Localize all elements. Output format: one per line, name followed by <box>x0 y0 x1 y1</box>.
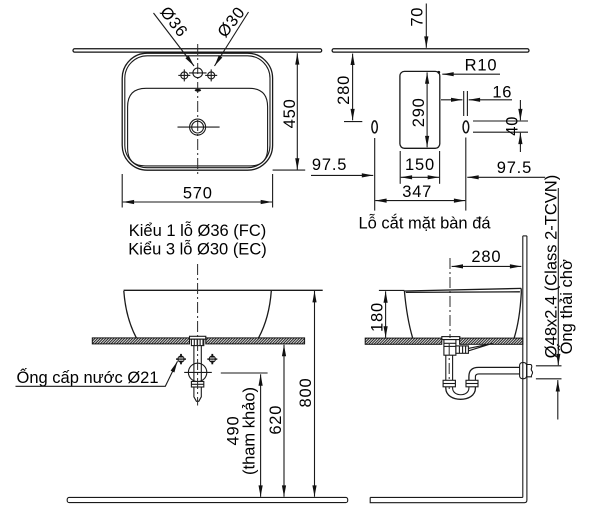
svg-text:450: 450 <box>281 98 299 128</box>
dimension 280 (side) <box>452 248 522 266</box>
dimension 347 <box>375 138 466 211</box>
svg-text:Lỗ cắt mặt bàn đá: Lỗ cắt mặt bàn đá <box>358 214 491 233</box>
waiting drain arrow <box>557 380 559 419</box>
floor slab right <box>370 497 527 502</box>
bowl right side (front) <box>259 291 272 338</box>
overflow slot <box>195 89 201 92</box>
side outlet fitting <box>456 346 469 353</box>
dimension 290 <box>410 72 428 147</box>
dimension 450 <box>273 53 306 170</box>
basin left side (side) <box>404 291 412 338</box>
dimension 800 <box>297 291 315 497</box>
wall <box>523 236 527 500</box>
svg-text:Kiểu 3 lỗ Ø30 (EC): Kiểu 3 lỗ Ø30 (EC) <box>128 239 266 258</box>
basin opening rect <box>128 88 268 166</box>
zero marker right <box>463 121 469 133</box>
dimension 97.5 right <box>467 159 545 177</box>
svg-text:40: 40 <box>504 116 522 136</box>
trap ball (front) <box>188 363 206 381</box>
svg-text:290: 290 <box>410 97 428 127</box>
trap centerline (side) <box>448 344 450 389</box>
dimension 180 <box>369 290 405 337</box>
dimension 150 <box>400 151 439 184</box>
svg-text:97.5: 97.5 <box>497 159 532 177</box>
svg-text:280: 280 <box>471 248 501 266</box>
svg-text:97.5: 97.5 <box>312 156 347 174</box>
dimension 620 <box>267 345 285 497</box>
ball centerline <box>184 371 212 373</box>
countertop edge line (cut-hole view) <box>332 49 529 52</box>
svg-text:(tham khảo): (tham khảo) <box>240 387 258 475</box>
center line (front vertical) <box>197 264 199 406</box>
U-bend outer <box>446 387 476 400</box>
supply point right <box>207 354 217 364</box>
lower nut (front) <box>191 382 203 388</box>
tailpipe (side) <box>446 355 453 380</box>
dimension 280 <box>335 54 362 122</box>
countertop band (side) <box>365 338 523 344</box>
svg-text:Ống cấp nước Ø21: Ống cấp nước Ø21 <box>17 367 159 387</box>
basin right side (side) <box>514 293 521 338</box>
faucet hole right Ø30 <box>205 69 217 81</box>
riser and elbow outer <box>469 367 520 380</box>
zero marker left <box>372 121 377 133</box>
svg-text:800: 800 <box>297 378 315 408</box>
drain flange (front) <box>190 336 206 339</box>
waiting drain stub <box>527 365 533 377</box>
dimension 40 <box>473 100 528 152</box>
svg-text:Kiểu 1 lỗ Ø36 (FC): Kiểu 1 lỗ Ø36 (FC) <box>129 221 267 240</box>
svg-text:620: 620 <box>267 405 285 435</box>
svg-text:570: 570 <box>183 185 213 203</box>
tailpipe (front) <box>194 346 201 382</box>
svg-text:150: 150 <box>405 156 435 174</box>
supply point left <box>176 354 186 364</box>
faucet hole center Ø36 <box>189 68 207 78</box>
supply level extension line <box>221 372 268 374</box>
countertop edge line (plan view) <box>73 49 322 52</box>
dimension 570 <box>122 174 272 208</box>
cut-out rectangle R10 <box>400 71 440 148</box>
svg-text:16: 16 <box>492 83 512 101</box>
dimension 490 <box>225 374 261 497</box>
trap nut left (side) <box>443 380 455 387</box>
svg-text:180: 180 <box>369 302 387 332</box>
dimension 97.5 left <box>311 156 373 175</box>
pipe diameter ticks <box>536 365 562 367</box>
center line (side) <box>449 258 451 338</box>
svg-text:347: 347 <box>402 183 432 201</box>
drain (plan) <box>178 119 220 135</box>
svg-text:R10: R10 <box>465 56 498 74</box>
label Ø36 leader <box>154 13 195 66</box>
dimension 70 <box>408 4 426 48</box>
label supply pipe <box>16 361 178 387</box>
basin rim (side) <box>404 288 521 293</box>
label Ø48 leader <box>557 188 559 365</box>
dimension 16 <box>441 83 512 116</box>
floor slab left <box>67 497 348 502</box>
outlet handle line <box>468 343 492 350</box>
drain flange (side) <box>442 337 460 340</box>
center line (plan vertical) <box>197 44 199 176</box>
bowl rim line (front) <box>124 289 323 291</box>
pipe tip (front) <box>194 387 201 401</box>
label R10 <box>437 56 500 74</box>
svg-text:70: 70 <box>408 7 426 27</box>
sink outer shell (plan) <box>122 53 272 170</box>
countertop band (front) <box>92 338 304 344</box>
drain tee (side) <box>444 340 456 356</box>
svg-text:Ống thải chờ: Ống thải chờ <box>556 259 576 354</box>
elbow inner <box>475 374 519 380</box>
svg-text:280: 280 <box>335 75 353 105</box>
bowl left side (front) <box>124 291 137 338</box>
U-bend inner <box>453 387 469 395</box>
faucet hole left Ø30 <box>178 69 190 81</box>
sink inner shell line <box>125 56 270 168</box>
label Ø30 leader <box>215 12 249 66</box>
trap nut right (side) <box>466 380 478 387</box>
wall flange <box>520 363 527 379</box>
drain nut (front) <box>191 339 203 345</box>
